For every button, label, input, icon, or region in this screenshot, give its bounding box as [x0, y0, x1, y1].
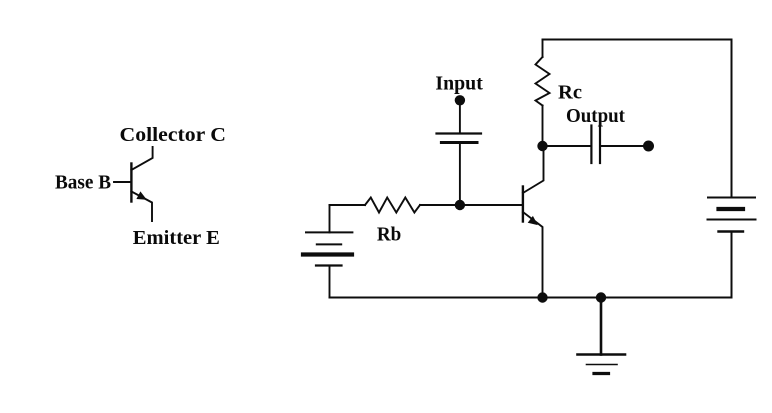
battery B2 plate2 short thick [719, 207, 744, 211]
transistor Q1 collector lead [523, 146, 544, 193]
battery B1 plate3 long thick [303, 252, 352, 256]
wire rail to Rc [542, 40, 544, 58]
battery B1 plate1 long [306, 231, 352, 233]
svg-text:Rc: Rc [558, 82, 582, 104]
label Base B [55, 172, 111, 194]
ground bar 2 [587, 364, 618, 366]
node collector dot [537, 141, 547, 151]
battery B1 bottom lead [329, 266, 331, 298]
wire Rc to collector node [542, 106, 544, 147]
battery B2 bottom lead [731, 232, 733, 298]
battery B1 plate4 medium [316, 264, 342, 266]
wire Rb to base [420, 204, 523, 206]
resistor Rb [365, 198, 420, 213]
label Rb [377, 224, 401, 246]
battery B2 plate4 short [719, 230, 744, 232]
node ground-rail dot [596, 292, 606, 302]
node output terminal dot [643, 141, 654, 152]
wire input dot to C1 [459, 100, 461, 133]
svg-text:Rb: Rb [377, 224, 401, 246]
capacitor C2 left plate [590, 126, 592, 164]
svg-text:Input: Input [435, 72, 483, 94]
battery B2 right top lead [731, 40, 733, 198]
transistor legend base lead [114, 181, 131, 183]
wire bottom rail [330, 297, 732, 299]
capacitor C1 top plate [437, 132, 482, 134]
svg-text:Emitter E: Emitter E [133, 227, 220, 249]
transistor legend emitter lead [131, 192, 152, 222]
capacitor C1 bottom plate [441, 141, 477, 144]
wire C1 to base node [459, 143, 461, 206]
battery B1 left top lead [329, 205, 331, 232]
battery B2 plate1 long [708, 197, 755, 199]
label Output [566, 105, 625, 127]
node emitter-rail dot [537, 292, 547, 302]
svg-text:Output: Output [566, 105, 625, 127]
label Collector C [120, 124, 227, 146]
wire rail to ground [600, 298, 603, 355]
svg-text:Base B: Base B [55, 172, 111, 194]
capacitor C2 right plate [599, 126, 601, 164]
label Rc [558, 82, 582, 104]
transistor legend base bar [130, 164, 132, 202]
transistor Q1 emitter lead [523, 212, 543, 298]
transistor legend collector lead [131, 147, 152, 170]
transistor Q1 base bar [522, 187, 524, 222]
wire collector node to C2 [543, 145, 592, 147]
resistor Rc [536, 57, 550, 106]
wire top rail [543, 39, 732, 41]
svg-text:Collector C: Collector C [120, 124, 227, 146]
node base junction dot [455, 200, 465, 210]
ground bar 3 [594, 372, 609, 375]
wire C2 to output dot [600, 145, 649, 147]
battery B1 plate2 short [317, 243, 341, 245]
battery B2 plate3 long [708, 219, 756, 221]
transistor legend emitter arrow [136, 191, 146, 199]
transistor Q1 emitter arrow [528, 216, 538, 225]
ground bar 1 [578, 353, 626, 356]
node Input terminal dot [455, 95, 465, 105]
label Input [435, 72, 483, 94]
label Emitter E [133, 227, 220, 249]
wire battery to Rb [330, 204, 366, 206]
